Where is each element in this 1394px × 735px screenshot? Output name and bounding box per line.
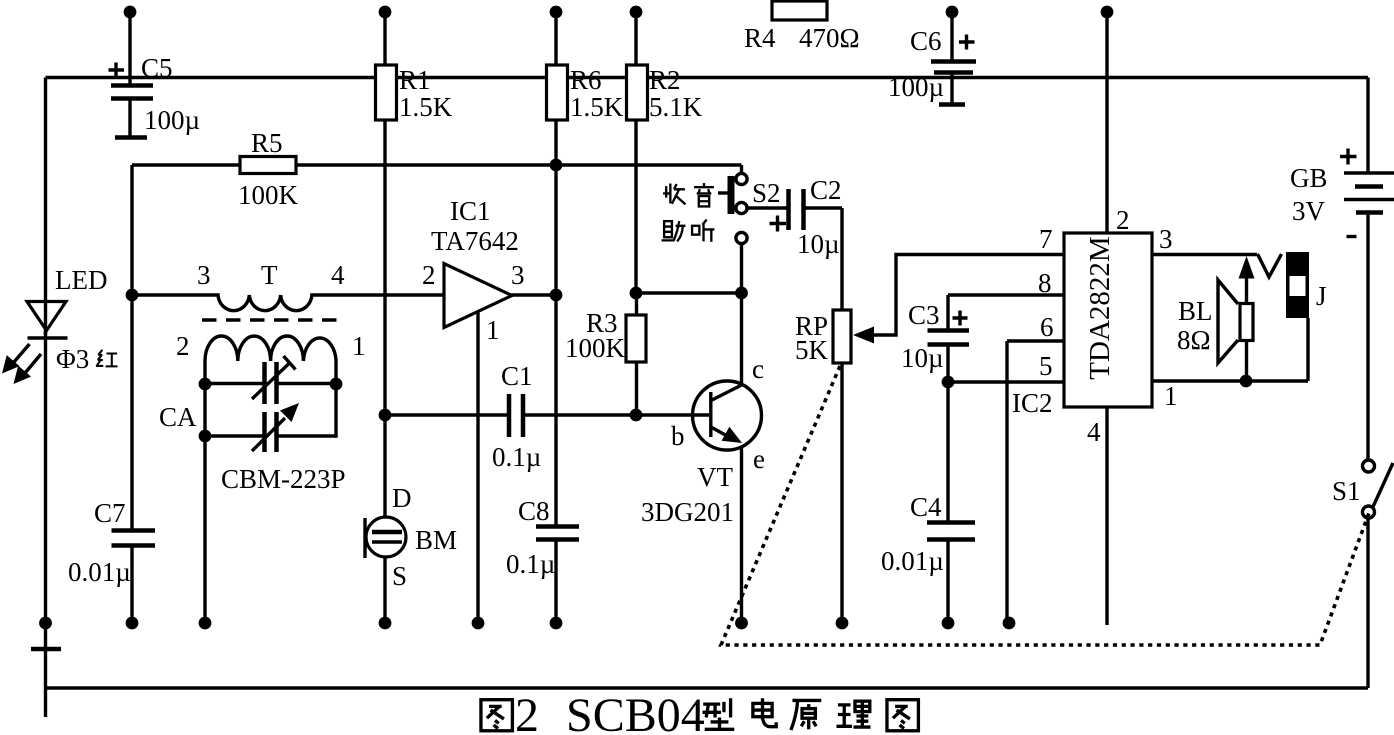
wire top supply rail [46,76,1369,79]
svg-text:SCB04: SCB04 [566,689,705,735]
wire IC2 pin4 [1105,407,1108,625]
svg-text:R4: R4 [744,23,776,53]
svg-text:2: 2 [422,260,436,290]
node junction T line left [126,289,139,302]
wire S2 to C2 [748,206,788,209]
svg-text:8: 8 [1038,268,1052,298]
capacitor C2 [770,175,843,259]
svg-text:6: 6 [1040,312,1054,342]
svg-text:S: S [392,561,407,591]
battery GB [1290,149,1394,237]
label CA [159,402,197,432]
svg-text:R5: R5 [251,128,283,158]
transistor VT 3DG201 [641,354,765,527]
wire detector line (transformer primary to IC1 input) [132,295,444,311]
speaker BL [1177,256,1255,387]
capacitor CA gang 2 (variable) [252,403,299,452]
svg-text:7: 7 [1039,224,1053,254]
svg-text:BL: BL [1178,296,1213,326]
node C1 line left junction [379,409,392,422]
caption figure title [481,689,918,735]
node R2/R3 junction [630,287,643,300]
svg-text:IC2: IC2 [1012,388,1053,418]
svg-text:5.1K: 5.1K [649,92,703,122]
svg-text:VT: VT [697,462,733,492]
svg-text:2: 2 [1116,205,1130,235]
svg-text:10µ: 10µ [901,343,944,373]
svg-text:C3: C3 [908,300,940,330]
wire bottom return rail [46,686,1369,689]
svg-text:LED: LED [55,265,107,295]
jack J [1258,252,1327,381]
svg-text:TDA2822M: TDA2822M [1084,236,1116,379]
svg-text:CBM-223P: CBM-223P [221,464,346,494]
node top stub C6 [946,6,959,60]
transformer T secondary [205,336,336,361]
svg-text:100µ: 100µ [888,72,944,102]
svg-text:C2: C2 [810,175,842,205]
transformer T core [202,318,338,321]
svg-text:8Ω: 8Ω [1177,325,1211,355]
op-amp IC1 TA7642 [422,196,525,345]
wire collector [740,293,743,383]
node R5/R6 junction [550,159,563,172]
node top stub C5 [124,6,137,84]
svg-text:3: 3 [1159,224,1173,254]
transformer labels [176,260,366,361]
resistor R5 [238,128,299,210]
svg-text:R6: R6 [570,65,602,95]
LED [27,265,107,338]
IC U2 TDA2822M [1064,233,1152,407]
resistor R6 [547,65,624,525]
wire IC1 output [511,289,562,302]
wire pin5 line [942,376,1064,389]
svg-text:0.1µ: 0.1µ [492,442,541,472]
wire collector top link [636,287,748,300]
svg-text:3: 3 [197,260,211,290]
wire IC1 pin1 ground [476,311,479,623]
microphone BM [365,483,457,591]
wire right rail battery to S1 [1366,213,1369,460]
svg-text:3: 3 [511,260,525,290]
svg-text:0.1µ: 0.1µ [506,549,555,579]
svg-text:C5: C5 [141,53,173,83]
capacitor C5 [109,53,201,138]
resistor R3 [565,293,646,415]
ground tick left [31,647,61,652]
svg-text:e: e [753,444,765,474]
wire right rail S1 to bottom [1366,518,1369,688]
svg-text:100K: 100K [565,333,626,363]
switch S2 [718,165,781,293]
resistor R4 [744,1,860,53]
svg-text:3DG201: 3DG201 [641,497,734,527]
svg-text:1: 1 [352,331,366,361]
svg-text:IC1: IC1 [450,196,491,226]
wire CA upper link [205,382,336,385]
svg-text:4: 4 [331,260,345,290]
svg-text:b: b [671,421,685,451]
capacitor C3 [901,295,969,382]
svg-text:S2: S2 [752,178,781,208]
svg-text:100K: 100K [238,180,299,210]
wire mid rail (R5 line) [132,163,742,166]
capacitor C7 [68,295,155,623]
mechanical linkage RP to S1 (dotted) [721,366,1369,645]
svg-text:C8: C8 [518,496,550,526]
wire IC2 pin3 speaker line [1152,253,1257,256]
svg-text:2: 2 [176,331,190,361]
svg-text:0.01µ: 0.01µ [68,557,131,587]
wire CBM left vertical [203,361,206,623]
svg-text:c: c [752,354,764,384]
svg-text:2: 2 [515,689,539,735]
node top stub R1 [379,6,392,66]
svg-text:C7: C7 [94,498,126,528]
svg-text:C1: C1 [501,361,533,391]
node top stub R6 [550,6,563,66]
svg-text:470Ω: 470Ω [799,23,860,53]
label S2 mode CJK (radio/hearing-aid) [662,183,715,242]
svg-text:CA: CA [159,402,197,432]
wire CA lower link [205,434,336,437]
svg-text:4: 4 [1087,417,1101,447]
node CA junctions [199,378,343,443]
label LED colour CJK (red) [96,350,118,367]
wire left rail vertical [44,78,47,718]
node top stub R2 [630,6,643,66]
svg-text:TA7642: TA7642 [431,226,519,256]
resistor R2 [627,65,703,293]
svg-text:S1: S1 [1332,476,1361,506]
wire CBM right vertical [334,361,337,438]
svg-text:Φ3: Φ3 [56,344,89,374]
svg-text:1.5K: 1.5K [570,92,624,122]
svg-text:1: 1 [1164,381,1178,411]
wire pin6 bridge [1007,341,1064,623]
label CBM-223P [221,464,346,494]
node R3/base junction [630,409,643,422]
svg-text:R2: R2 [649,65,681,95]
IC2 pin labels [1012,205,1178,447]
svg-text:0.01µ: 0.01µ [881,546,944,576]
switch S1 [1332,460,1393,518]
svg-text:J: J [1316,281,1327,311]
svg-text:100µ: 100µ [144,105,200,135]
wire C3 to pin8 [948,293,1064,296]
svg-text:GB: GB [1290,163,1328,193]
resistor R1 [376,65,453,623]
svg-text:R1: R1 [399,65,431,95]
capacitor C1 [492,361,541,472]
svg-text:1: 1 [486,315,500,345]
svg-text:5K: 5K [795,335,829,365]
svg-text:T: T [261,260,278,290]
svg-text:3V: 3V [1292,196,1326,226]
svg-text:C6: C6 [910,26,942,56]
node ground dots [39,617,1015,630]
svg-text:D: D [392,483,412,513]
potentiometer RP [795,208,851,623]
capacitor CA gang 1 (variable trimmer) [252,356,296,404]
wire C1 line [385,413,709,416]
capacitor C8 [506,496,579,623]
wire emitter ground [740,448,743,623]
capacitor C4 [881,382,975,623]
capacitor C6 [888,26,976,105]
label LED size [56,344,89,374]
wire R5 line left drop [130,165,133,295]
wire RP wiper to pin7 [853,255,1064,344]
svg-text:5: 5 [1039,351,1053,381]
wire right rail top (battery feed) [1366,78,1369,173]
svg-text:10µ: 10µ [797,229,840,259]
node top stub IC2 pin2 [1101,6,1114,233]
svg-text:1.5K: 1.5K [399,92,453,122]
wire IC2 pin1 line [1152,379,1308,382]
LED arrows [2,344,41,384]
svg-text:BM: BM [415,525,457,555]
svg-text:C4: C4 [910,492,942,522]
